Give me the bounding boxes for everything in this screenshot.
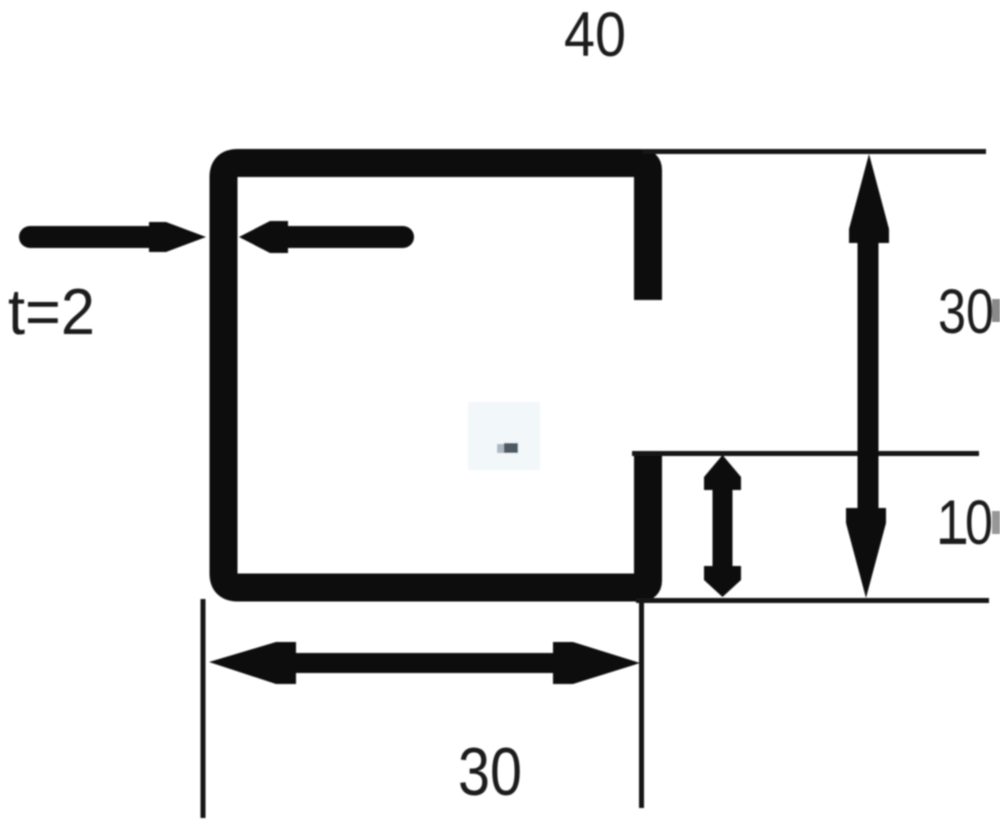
svg-text:30: 30	[938, 277, 994, 347]
t=2 right arrow	[285, 226, 403, 248]
gray smudge right edge near 10	[992, 511, 1000, 534]
svg-text:10: 10	[937, 488, 993, 558]
extension line bottom right	[636, 598, 989, 603]
blue-gray artifact square	[504, 443, 518, 453]
dimension arrow 30+10 vertical (right)	[858, 238, 879, 512]
extension line mid right (lip top level)	[632, 451, 979, 456]
dimension arrow 10 (small, right of bottom lip)	[713, 486, 733, 570]
t=2 left arrow	[30, 226, 158, 248]
extension line bottom left vertical	[201, 599, 206, 818]
svg-text:30: 30	[458, 734, 522, 810]
extension line bottom right vertical	[639, 603, 644, 808]
svg-text:t=2: t=2	[8, 275, 95, 348]
faint blue artifact halo	[468, 402, 540, 470]
C-channel profile	[224, 163, 649, 588]
dimension arrow 30 horizontal (bottom)	[290, 653, 560, 673]
svg-text:40: 40	[564, 0, 626, 70]
gray smudge right edge near 30	[992, 299, 1000, 322]
extension line top right	[643, 149, 986, 154]
